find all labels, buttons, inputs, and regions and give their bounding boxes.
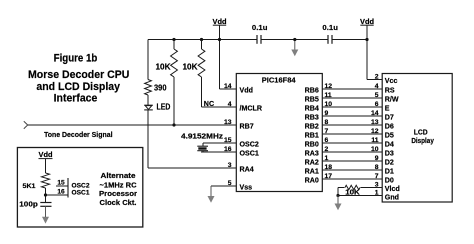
svg-text:OSC2: OSC2 (72, 182, 90, 189)
svg-text:RB1: RB1 (305, 131, 319, 139)
svg-text:D7: D7 (385, 113, 394, 121)
svg-text:10K: 10K (345, 190, 360, 197)
svg-text:Morse Decoder CPU: Morse Decoder CPU (28, 69, 129, 81)
svg-text:RA4: RA4 (240, 165, 254, 173)
svg-text:D1: D1 (385, 167, 394, 175)
svg-text:LCD: LCD (414, 130, 428, 137)
svg-text:RB6: RB6 (305, 86, 319, 94)
svg-text:Alternate: Alternate (101, 171, 136, 180)
svg-text:D2: D2 (385, 158, 394, 166)
svg-text:D6: D6 (385, 122, 394, 130)
svg-text:5K1: 5K1 (23, 183, 36, 190)
svg-text:11: 11 (325, 92, 332, 99)
svg-text:R/W: R/W (385, 95, 399, 103)
svg-text:10: 10 (325, 101, 333, 108)
svg-text:14: 14 (371, 110, 379, 117)
svg-text:10K: 10K (156, 63, 171, 72)
svg-text:13: 13 (371, 119, 379, 126)
svg-text:6: 6 (375, 101, 379, 108)
svg-text:18: 18 (325, 164, 333, 171)
svg-text:RA3: RA3 (305, 149, 319, 157)
svg-text:1: 1 (325, 155, 329, 162)
svg-text:Interface: Interface (54, 93, 98, 105)
svg-text:8: 8 (375, 164, 379, 171)
svg-text:RB5: RB5 (305, 95, 319, 103)
svg-text:10K: 10K (183, 63, 198, 72)
svg-text:Clock Ckt.: Clock Ckt. (100, 198, 137, 207)
svg-text:Figure 1b: Figure 1b (54, 52, 98, 64)
svg-text:7: 7 (375, 173, 379, 180)
svg-text:RA1: RA1 (305, 167, 319, 175)
svg-text:0.1u: 0.1u (322, 23, 338, 32)
svg-text:~1MHz RC: ~1MHz RC (100, 180, 138, 189)
svg-text:11: 11 (371, 137, 378, 144)
svg-text:and LCD Display: and LCD Display (36, 81, 120, 93)
svg-text:RS: RS (385, 86, 395, 94)
svg-text:8: 8 (325, 119, 329, 126)
svg-text:Vlcd: Vlcd (385, 185, 400, 193)
svg-text:Display: Display (411, 138, 434, 145)
svg-text:4: 4 (375, 83, 379, 90)
svg-text:Gnd: Gnd (385, 193, 399, 201)
svg-text:Tone Decoder Signal: Tone Decoder Signal (44, 130, 113, 139)
svg-text:5: 5 (375, 92, 379, 99)
svg-text:D5: D5 (385, 131, 394, 139)
svg-text:NC: NC (204, 99, 215, 108)
svg-text:/MCLR: /MCLR (240, 104, 262, 112)
svg-text:17: 17 (325, 173, 333, 180)
svg-text:4: 4 (228, 101, 232, 108)
svg-text:2: 2 (325, 146, 329, 153)
svg-text:15: 15 (57, 179, 65, 186)
svg-text:12: 12 (371, 128, 379, 135)
svg-text:RA0: RA0 (305, 176, 319, 184)
svg-text:2: 2 (375, 73, 379, 80)
svg-text:LED: LED (157, 103, 171, 112)
svg-text:Processor: Processor (99, 189, 137, 198)
svg-text:Vdd: Vdd (39, 152, 53, 159)
svg-text:10: 10 (371, 146, 379, 153)
svg-text:E: E (385, 104, 390, 112)
svg-text:12: 12 (325, 83, 333, 90)
svg-text:RB4: RB4 (305, 104, 319, 112)
svg-text:RA2: RA2 (305, 158, 319, 166)
svg-text:15: 15 (224, 137, 232, 144)
svg-text:390: 390 (154, 84, 167, 93)
svg-text:RB0: RB0 (305, 140, 319, 148)
svg-text:PIC16F84: PIC16F84 (262, 76, 296, 85)
svg-text:4.9152MHz: 4.9152MHz (181, 133, 224, 140)
svg-text:13: 13 (224, 119, 232, 126)
svg-text:9: 9 (375, 155, 379, 162)
svg-text:0.1u: 0.1u (252, 23, 268, 32)
svg-text:RB7: RB7 (240, 122, 254, 130)
svg-text:OSC1: OSC1 (72, 190, 90, 197)
svg-text:RB3: RB3 (305, 113, 319, 121)
svg-text:D3: D3 (385, 149, 394, 157)
svg-text:Vcc: Vcc (385, 77, 398, 85)
svg-text:16: 16 (57, 188, 65, 195)
svg-text:RB2: RB2 (305, 122, 319, 130)
svg-text:OSC1: OSC1 (240, 149, 259, 157)
svg-text:Vdd: Vdd (240, 86, 253, 94)
svg-text:100p: 100p (19, 199, 38, 208)
svg-text:5: 5 (228, 180, 232, 187)
svg-text:6: 6 (325, 137, 329, 144)
svg-text:D0: D0 (385, 176, 394, 184)
svg-text:D4: D4 (385, 140, 394, 148)
svg-text:7: 7 (325, 128, 329, 135)
svg-text:14: 14 (224, 83, 232, 90)
svg-text:OSC2: OSC2 (240, 140, 259, 148)
svg-text:3: 3 (228, 162, 232, 169)
svg-text:16: 16 (224, 146, 232, 153)
svg-text:Vss: Vss (240, 183, 253, 191)
svg-text:9: 9 (325, 110, 329, 117)
